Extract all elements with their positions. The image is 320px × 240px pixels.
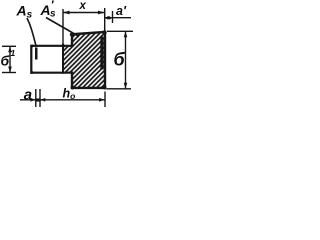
- svg-text:a′: a′: [116, 4, 127, 18]
- svg-text:a: a: [24, 86, 32, 103]
- svg-text:б: б: [114, 50, 126, 70]
- svg-text:б: б: [1, 53, 10, 69]
- svg-text:x: x: [79, 0, 87, 12]
- svg-text:1: 1: [11, 48, 16, 58]
